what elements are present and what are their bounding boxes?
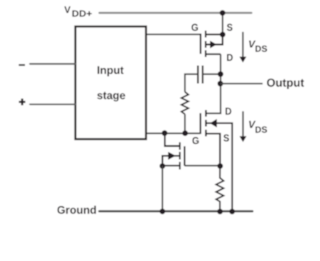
- wire: M3 gate to M2 source line: [185, 165, 220, 167]
- M1 body arrow: [210, 41, 217, 49]
- label G M1: [192, 24, 198, 31]
- ground rail: [99, 210, 252, 212]
- transistor M3 (mirrored, lower-left): [162, 133, 184, 169]
- C1 right lead: [203, 73, 221, 75]
- resistor R1: [181, 92, 188, 114]
- wire: box to M1 gate: [147, 33, 201, 35]
- M3 channel tick 3: [179, 162, 181, 170]
- M1 source lead: [206, 33, 223, 35]
- non-inverting input wire: [30, 103, 75, 105]
- label D M1: [227, 54, 233, 61]
- wire: M2 gate from box: [147, 132, 201, 134]
- M2 source lead: [206, 134, 220, 166]
- VDD+ rail: [99, 12, 251, 14]
- node: M3 gate / R2 junction: [217, 163, 223, 169]
- label D M2: [226, 108, 232, 115]
- wire M1 source to rail: [222, 13, 224, 35]
- inverting input label: [19, 64, 25, 66]
- M3 channel tick 1: [179, 142, 181, 149]
- M3 channel tick 2: [179, 152, 181, 160]
- node: M3 body/source junction: [160, 163, 166, 169]
- label G M2: [192, 137, 198, 144]
- node: capacitor junction: [218, 71, 224, 77]
- M2 channel tick 2: [205, 120, 207, 127]
- M1 body lead: [206, 35, 223, 45]
- M3 body arrow: [168, 152, 175, 160]
- transistor M1 (PMOS top): [201, 31, 223, 57]
- M2 body lead: [206, 123, 232, 211]
- M1 channel tick 3: [205, 50, 207, 57]
- R1 bottom lead: [184, 114, 186, 133]
- M2 channel tick 3: [205, 130, 207, 137]
- M3 body lead: [162, 156, 179, 166]
- wire: M3 source to ground: [161, 166, 163, 211]
- resistor R2: [216, 166, 224, 211]
- node: ground / M3: [160, 209, 166, 215]
- label VDS M1: [249, 41, 256, 48]
- VDS arrow M2: [242, 111, 244, 136]
- M3 gate bar: [184, 146, 186, 165]
- inverting input wire: [30, 63, 75, 65]
- label Ground: [57, 206, 96, 214]
- node: ground / M2 body: [229, 209, 235, 215]
- M1 channel tick 2: [205, 41, 207, 48]
- label VDS M2: [249, 121, 256, 128]
- M2 gate bar: [199, 113, 201, 134]
- label Output: [267, 79, 304, 89]
- M2 body arrow: [210, 119, 217, 127]
- M1 channel tick 1: [205, 31, 207, 38]
- node: M1 source/body: [220, 32, 226, 38]
- label S M2: [224, 134, 230, 141]
- non-inverting input label: [19, 99, 25, 106]
- output wire: [221, 83, 263, 85]
- node: ground / R2: [217, 209, 223, 215]
- M2 channel tick 1: [205, 110, 207, 117]
- transistor M2 (NMOS middle): [200, 110, 232, 211]
- node: R1 tap: [182, 130, 188, 136]
- node: M3 drain tap: [162, 130, 168, 136]
- node: output junction: [218, 81, 224, 87]
- input stage box: [75, 27, 146, 140]
- capacitor C1: [198, 66, 203, 84]
- label S M1: [227, 24, 233, 31]
- wire: M1 drain spine down: [206, 54, 221, 113]
- M3 drain lead: [165, 133, 180, 146]
- VDS arrow M1: [242, 32, 244, 57]
- VDD+ label: [64, 6, 70, 13]
- C1 left lead: [185, 74, 198, 92]
- M1 gate bar: [200, 34, 202, 54]
- input stage label: [98, 66, 124, 76]
- node: rail junction: [220, 10, 226, 16]
- M1 drain lead: [206, 53, 221, 55]
- M3 source lead: [162, 165, 179, 167]
